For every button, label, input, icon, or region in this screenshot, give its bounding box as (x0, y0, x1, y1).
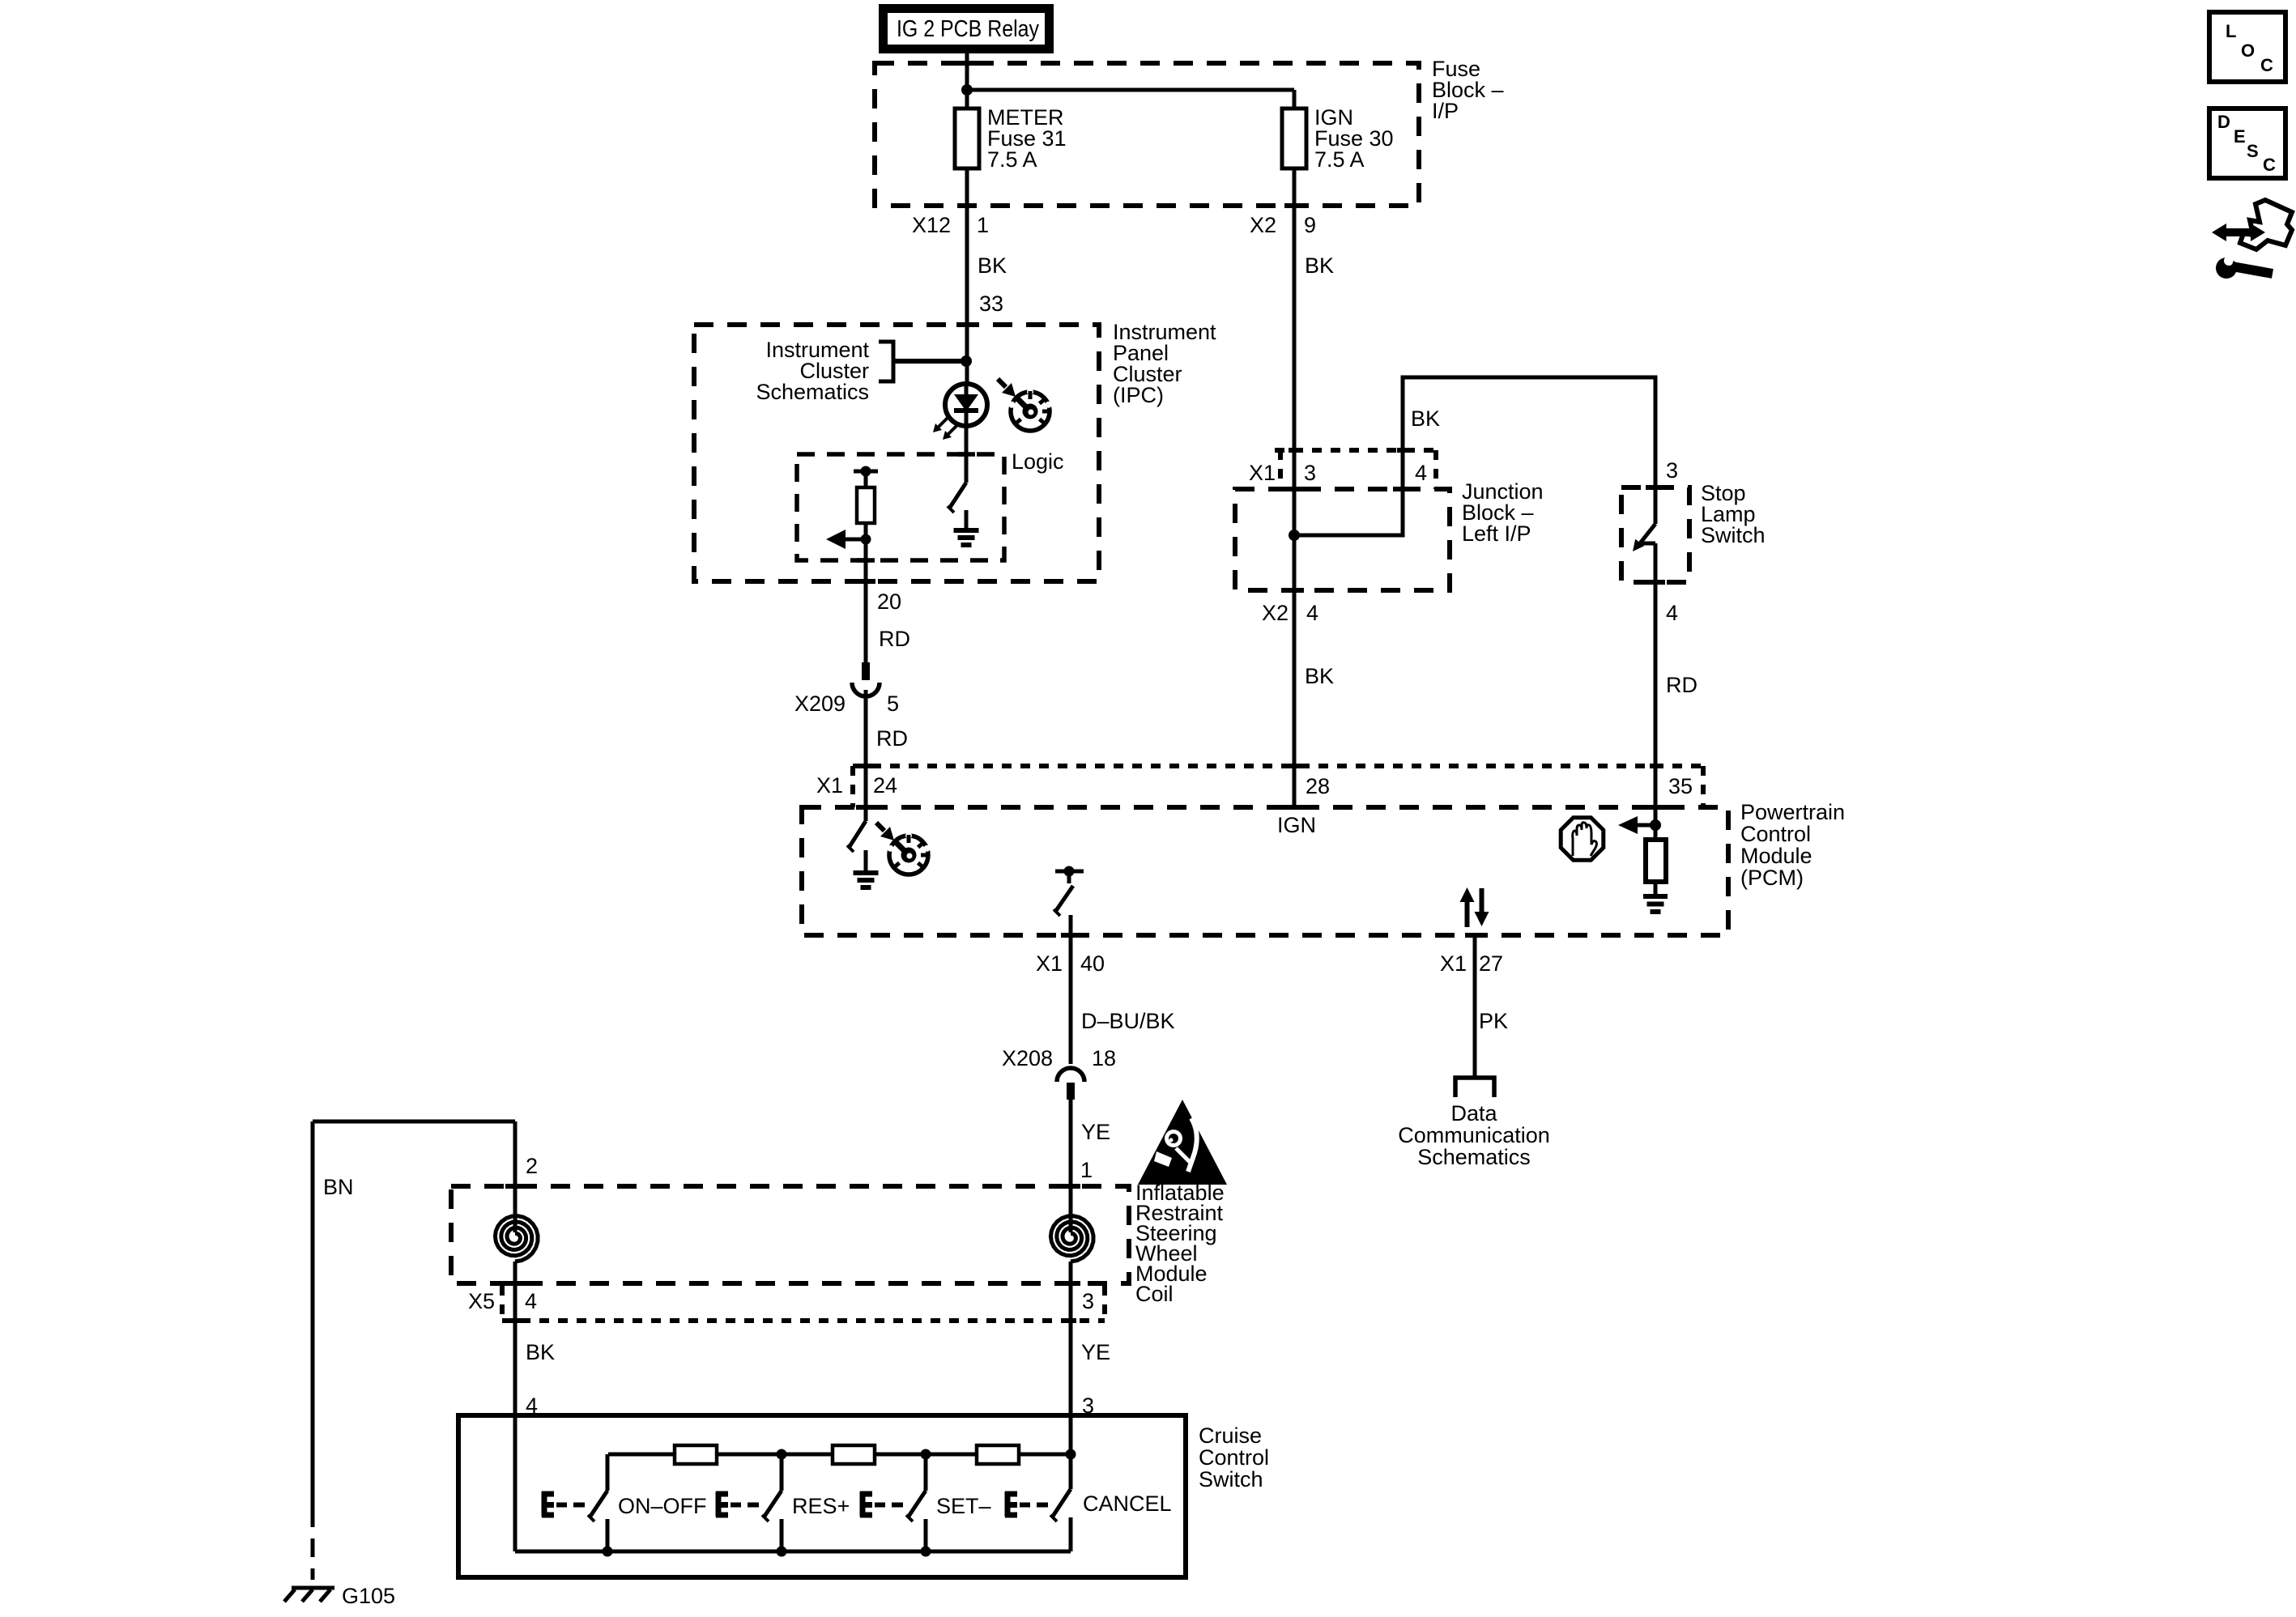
svg-text:4: 4 (1306, 601, 1318, 625)
svg-text:18: 18 (1092, 1046, 1116, 1070)
svg-text:Cruise: Cruise (1199, 1423, 1262, 1448)
svg-text:BK: BK (1305, 664, 1334, 688)
svg-text:X5: X5 (468, 1289, 495, 1313)
svg-text:Switch: Switch (1701, 523, 1766, 547)
svg-text:L: L (2226, 21, 2236, 41)
svg-text:IG 2 PCB Relay: IG 2 PCB Relay (897, 16, 1039, 42)
svg-text:RES+: RES+ (792, 1494, 850, 1518)
svg-text:Control: Control (1740, 822, 1811, 846)
svg-text:YE: YE (1081, 1340, 1110, 1364)
svg-text:Module: Module (1740, 844, 1813, 868)
svg-text:4: 4 (1666, 601, 1678, 625)
svg-text:40: 40 (1080, 951, 1105, 976)
svg-text:24: 24 (873, 773, 897, 798)
svg-text:Left I/P: Left I/P (1462, 521, 1531, 546)
svg-text:BK: BK (1305, 253, 1334, 278)
svg-text:D: D (2217, 112, 2230, 132)
svg-text:Schematics: Schematics (756, 380, 869, 404)
svg-text:G105: G105 (342, 1584, 395, 1608)
svg-text:9: 9 (1304, 213, 1316, 237)
svg-text:Data: Data (1450, 1101, 1497, 1126)
svg-text:35: 35 (1668, 774, 1693, 798)
svg-text:C: C (2263, 155, 2276, 175)
svg-text:Logic: Logic (1012, 449, 1064, 474)
svg-text:S: S (2247, 141, 2259, 161)
svg-text:BK: BK (526, 1340, 555, 1364)
svg-text:YE: YE (1081, 1120, 1110, 1144)
svg-text:BK: BK (1411, 406, 1440, 431)
svg-text:X1: X1 (816, 773, 843, 798)
svg-text:2: 2 (526, 1154, 538, 1178)
svg-text:X2: X2 (1250, 213, 1276, 237)
svg-text:33: 33 (979, 291, 1003, 316)
svg-text:PK: PK (1479, 1009, 1508, 1033)
svg-text:I/P: I/P (1432, 99, 1459, 123)
svg-text:X2: X2 (1262, 601, 1289, 625)
svg-text:27: 27 (1479, 951, 1503, 976)
svg-text:X1: X1 (1249, 461, 1276, 485)
svg-text:3: 3 (1082, 1289, 1094, 1313)
svg-text:28: 28 (1306, 774, 1330, 798)
svg-text:4: 4 (525, 1289, 537, 1313)
svg-text:20: 20 (877, 589, 901, 614)
svg-text:Schematics: Schematics (1417, 1145, 1531, 1169)
svg-text:RD: RD (879, 627, 910, 651)
svg-text:SET–: SET– (936, 1494, 991, 1518)
svg-text:3: 3 (1666, 458, 1678, 483)
svg-text:BN: BN (323, 1175, 354, 1199)
svg-text:BK: BK (978, 253, 1007, 278)
svg-text:Communication: Communication (1398, 1123, 1550, 1147)
svg-text:1: 1 (1080, 1158, 1093, 1182)
svg-text:(PCM): (PCM) (1740, 866, 1804, 890)
svg-text:O: O (2241, 40, 2255, 61)
svg-text:7.5 A: 7.5 A (987, 147, 1037, 172)
svg-text:D–BU/BK: D–BU/BK (1081, 1009, 1175, 1033)
svg-text:(IPC): (IPC) (1113, 383, 1164, 407)
svg-text:CANCEL: CANCEL (1083, 1491, 1172, 1516)
svg-text:Switch: Switch (1199, 1467, 1263, 1491)
svg-text:E: E (2234, 126, 2246, 147)
svg-text:Control: Control (1199, 1445, 1269, 1470)
svg-text:IGN: IGN (1277, 813, 1316, 837)
svg-text:X209: X209 (794, 691, 846, 716)
svg-text:5: 5 (887, 691, 899, 716)
svg-text:C: C (2260, 55, 2273, 75)
svg-text:X1: X1 (1440, 951, 1467, 976)
svg-text:RD: RD (1666, 673, 1698, 697)
svg-text:RD: RD (876, 726, 908, 751)
svg-text:ON–OFF: ON–OFF (618, 1494, 707, 1518)
svg-text:X12: X12 (912, 213, 951, 237)
svg-text:Coil: Coil (1135, 1282, 1174, 1306)
svg-text:Powertrain: Powertrain (1740, 800, 1845, 824)
svg-text:X208: X208 (1002, 1046, 1053, 1070)
svg-text:3: 3 (1304, 461, 1316, 485)
svg-text:7.5 A: 7.5 A (1314, 147, 1365, 172)
svg-text:X1: X1 (1036, 951, 1063, 976)
svg-text:4: 4 (1415, 461, 1427, 485)
svg-text:1: 1 (977, 213, 989, 237)
